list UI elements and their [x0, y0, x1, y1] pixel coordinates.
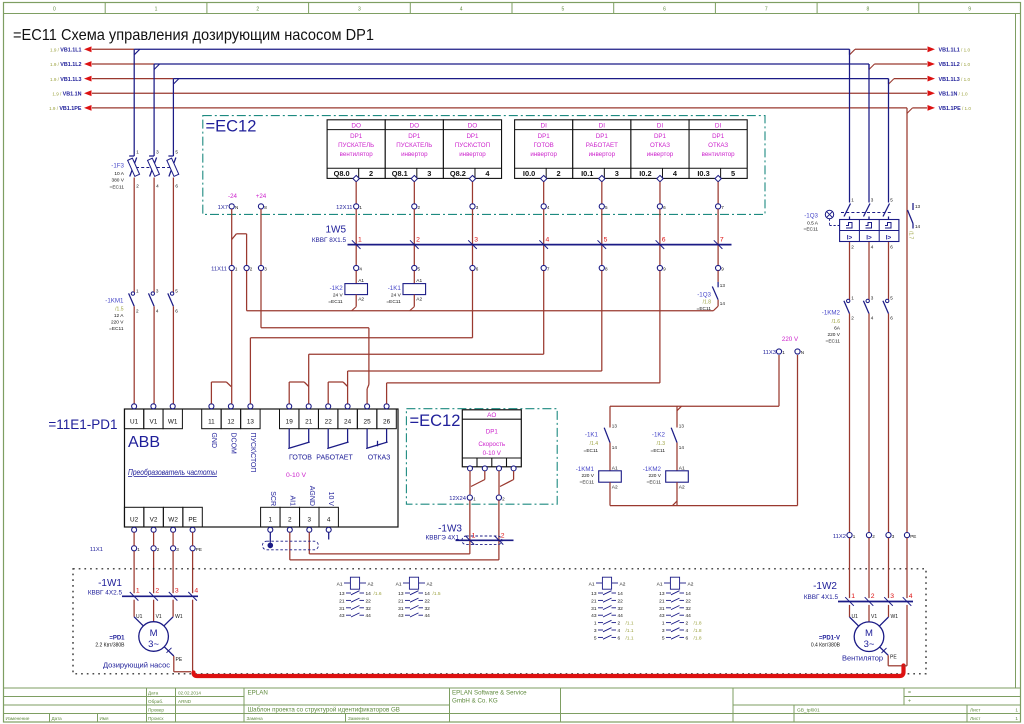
svg-text:A1: A1	[657, 581, 663, 587]
field equipment dotted box	[73, 569, 926, 674]
terminal 11X11:1	[229, 265, 234, 270]
terminal 12X11:4	[541, 204, 546, 209]
rail VB1.1PE target arrow right	[928, 105, 936, 111]
coil circuit top rail 220V	[610, 405, 779, 407]
svg-text:43: 43	[591, 613, 597, 619]
svg-text:3: 3	[594, 628, 597, 634]
terminal 11X1:2	[151, 546, 156, 551]
svg-text:2: 2	[872, 534, 875, 539]
svg-text:V1: V1	[871, 614, 877, 620]
top ruler band	[4, 13, 1021, 15]
svg-text:6: 6	[175, 308, 178, 313]
svg-text:DO: DO	[351, 122, 361, 129]
svg-text:12X11: 12X11	[336, 205, 352, 211]
terminal 12X24:2	[496, 495, 501, 500]
svg-text:GND: GND	[210, 433, 217, 449]
rail VB1.1N target arrow right	[928, 90, 936, 96]
svg-text:Q8.2: Q8.2	[450, 169, 466, 178]
svg-text:2: 2	[136, 184, 139, 189]
svg-text:2: 2	[136, 308, 139, 313]
wire 11X1:PE to cable	[192, 551, 194, 593]
svg-text:AGND: AGND	[308, 486, 315, 506]
1W5 wire 2 mark	[410, 240, 419, 249]
-1KM2 contact pole 3	[886, 299, 889, 302]
svg-text:13: 13	[339, 591, 345, 597]
wire VFD to 11X1:PE	[192, 532, 194, 545]
svg-text:ПУСКАТЕЛЬ: ПУСКАТЕЛЬ	[338, 142, 374, 149]
svg-text:22: 22	[366, 598, 372, 604]
PLC box I0.1	[573, 120, 631, 179]
svg-text:14: 14	[915, 224, 921, 229]
svg-text:ГОТОВ: ГОТОВ	[289, 455, 312, 462]
right inner frame line	[1015, 14, 1017, 689]
svg-text:2: 2	[871, 593, 875, 600]
svg-text:/1.4: /1.4	[590, 441, 599, 447]
rail VB1.1PE source arrow left	[84, 105, 92, 111]
wire 11X2:3 to cable	[888, 538, 890, 598]
svg-text:W1: W1	[175, 614, 183, 620]
svg-text:21: 21	[591, 598, 597, 604]
terminal 11X2:2	[866, 533, 871, 538]
svg-text:6: 6	[175, 184, 178, 189]
PLC box AO DP1 Скорость	[462, 410, 521, 467]
svg-text:A2: A2	[679, 484, 685, 490]
svg-text:РАБОТАЕТ: РАБОТАЕТ	[316, 455, 353, 462]
svg-text:1: 1	[662, 621, 665, 627]
PLC box I0.2	[631, 120, 689, 179]
svg-text:5: 5	[605, 205, 608, 210]
svg-text:PE: PE	[176, 657, 183, 663]
contact mirror cross-reference	[403, 582, 409, 584]
svg-text:DI: DI	[657, 122, 664, 129]
svg-text:/1.7: /1.7	[908, 231, 914, 240]
svg-text:-1K1: -1K1	[585, 432, 599, 439]
jumper VFD pins 11-12 GND-DCOM	[210, 382, 212, 404]
svg-text:5: 5	[561, 7, 564, 13]
svg-text:2: 2	[288, 517, 292, 524]
svg-text:=: =	[908, 690, 911, 696]
svg-text:КВВГ 8Х1.5: КВВГ 8Х1.5	[312, 237, 347, 244]
svg-text:0-10 V: 0-10 V	[483, 450, 502, 457]
svg-text:7: 7	[547, 267, 550, 272]
svg-text:3: 3	[156, 288, 159, 293]
wire 11X2:2 to cable	[868, 538, 870, 598]
svg-text:2: 2	[250, 267, 253, 272]
svg-text:12: 12	[227, 418, 235, 425]
svg-text:I0.1: I0.1	[581, 169, 593, 178]
svg-text:PE: PE	[196, 547, 202, 552]
-1Q3 aux contact 13-14 right	[912, 203, 914, 210]
svg-text:3: 3	[890, 593, 894, 600]
wire -1KM1 pole 2 to VFD	[153, 306, 155, 403]
VFD bottom pin U2	[124, 507, 143, 527]
terminal 12X11:6	[657, 204, 662, 209]
svg-text:=EC11: =EC11	[386, 299, 401, 305]
svg-text:A2: A2	[358, 296, 364, 302]
svg-text:ARND: ARND	[178, 699, 192, 704]
svg-text:=EC11: =EC11	[697, 306, 712, 312]
svg-text:DP1: DP1	[350, 133, 363, 140]
svg-text:-1KM2: -1KM2	[822, 310, 841, 317]
svg-text:вентилятор: вентилятор	[340, 151, 374, 158]
VFD relay contact ГОТОВ 19-21	[288, 429, 290, 448]
wire 11X11:8 to VFD pin 24	[601, 271, 603, 371]
svg-text:21: 21	[398, 598, 404, 604]
svg-text:-1Q3: -1Q3	[804, 213, 818, 220]
svg-text:22: 22	[425, 598, 431, 604]
svg-text:5: 5	[594, 635, 597, 641]
L1 drop left	[133, 49, 135, 156]
svg-text:U1: U1	[852, 614, 859, 620]
terminal 11X1:PE	[190, 546, 195, 551]
VFD bottom pin 4	[319, 507, 338, 527]
wire 11X11:6 to VFD pin 13 ПУСК\СТОП	[472, 271, 474, 338]
svg-text:=PD1-V: =PD1-V	[819, 636, 840, 642]
svg-text:11X2: 11X2	[833, 534, 846, 540]
svg-text:ГОТОВ: ГОТОВ	[534, 142, 554, 149]
svg-text:44: 44	[425, 613, 431, 619]
svg-text:W1: W1	[168, 418, 178, 425]
svg-text:Дата: Дата	[52, 716, 63, 721]
terminal 11X11:5	[412, 265, 417, 270]
svg-text:=EC11: =EC11	[328, 299, 343, 305]
-1KM1 contact pole 3	[170, 292, 173, 295]
svg-text:-1KM2: -1KM2	[643, 466, 662, 473]
svg-text:/1.6: /1.6	[374, 591, 382, 597]
svg-text:V1: V1	[156, 614, 162, 620]
motor =PD1 leads	[133, 600, 135, 617]
VFD top pin 22	[319, 409, 338, 429]
svg-text:EPLAN: EPLAN	[248, 690, 268, 697]
terminal 11X2:3	[886, 533, 891, 538]
svg-text:6: 6	[662, 237, 666, 244]
svg-text:24: 24	[344, 418, 352, 425]
wire AO pin2 jog to 12X24:1	[484, 471, 486, 480]
svg-text:-1W3: -1W3	[438, 524, 462, 535]
svg-text:2: 2	[618, 621, 621, 627]
wire 11X11:1 to VFD pin 12 DCOM	[231, 271, 233, 404]
svg-text:2: 2	[369, 169, 373, 178]
svg-text:инвертор: инвертор	[589, 151, 616, 158]
rail VB1.1L3 wire	[92, 78, 173, 80]
terminal 12X24:1	[467, 495, 472, 500]
svg-text:26: 26	[383, 418, 391, 425]
svg-text:/1.5: /1.5	[115, 307, 124, 313]
svg-text:4: 4	[909, 593, 913, 600]
svg-text:11X1: 11X1	[90, 547, 103, 553]
wire -24 common A2 line	[246, 271, 248, 311]
svg-text:4: 4	[546, 237, 550, 244]
-1W1 wire 4 mark	[188, 592, 197, 601]
svg-text:3: 3	[615, 169, 619, 178]
jumper VFD pins 19-21	[288, 382, 290, 404]
svg-text:31: 31	[398, 606, 404, 612]
svg-text:1: 1	[358, 237, 362, 244]
svg-text:4: 4	[194, 588, 198, 595]
frequency converter U1 =11E1-PD1 outer box	[125, 409, 399, 527]
svg-text:W2: W2	[168, 517, 178, 524]
svg-text:13: 13	[659, 591, 665, 597]
svg-text:3: 3	[476, 205, 479, 210]
wire -1Q3 pole 1 to -1KM2	[849, 242, 851, 300]
svg-text:ОТКАЗ: ОТКАЗ	[708, 142, 728, 149]
VFD relay contact РАБОТАЕТ 22-24	[327, 429, 329, 448]
wire -1Q3 pole 3 to -1KM2	[888, 242, 890, 300]
svg-text:Провер: Провер	[148, 708, 164, 713]
svg-text:Лист: Лист	[970, 708, 981, 714]
wire -1KM2 pole 3 to 11X2	[888, 314, 890, 533]
svg-text:7: 7	[765, 7, 768, 13]
svg-text:4: 4	[547, 205, 550, 210]
-1KM1 contact pole 2	[151, 292, 154, 295]
svg-text:0.5 A: 0.5 A	[807, 221, 819, 227]
wire 11X3:1 to top rail	[778, 355, 780, 406]
wire -1KM1 pole 1 to VFD	[133, 306, 135, 403]
svg-text:3~: 3~	[864, 639, 875, 650]
VFD top pin V1	[144, 409, 163, 429]
svg-text:-1Q3: -1Q3	[697, 291, 711, 298]
svg-text:0: 0	[53, 7, 56, 13]
svg-text:11X3: 11X3	[763, 350, 776, 356]
svg-text:3: 3	[264, 267, 267, 272]
terminal 12X11:5	[599, 204, 604, 209]
svg-text:Преобразователь частоты: Преобразователь частоты	[128, 468, 217, 477]
-1KM2 contact pole 2	[866, 299, 869, 302]
svg-text:Заменено: Заменено	[348, 716, 370, 721]
svg-text:2: 2	[851, 316, 854, 321]
svg-text:2.2 Квт/380В: 2.2 Квт/380В	[95, 643, 125, 649]
VFD top pin 13	[241, 409, 260, 429]
svg-text:1: 1	[851, 198, 854, 203]
svg-text:2: 2	[157, 547, 160, 552]
svg-text:13: 13	[679, 424, 685, 429]
svg-text:=EC11: =EC11	[826, 338, 841, 344]
svg-text:=EC11: =EC11	[110, 185, 125, 191]
wire 12X11:5 down	[601, 209, 603, 265]
wire VFD to 11X1:2	[153, 532, 155, 545]
svg-text:GB_tpl001: GB_tpl001	[797, 708, 820, 714]
svg-text:Изменение: Изменение	[6, 716, 30, 721]
terminal 11X1:1	[132, 546, 137, 551]
VFD top pin 12	[221, 409, 240, 429]
svg-text:=EC11 Схема управления дозирую: =EC11 Схема управления дозирующим насосо…	[13, 27, 374, 44]
wire -1Q3 pole 2 to -1KM2	[868, 242, 870, 300]
motor =PD1 PE lead	[164, 647, 174, 656]
svg-text:7: 7	[720, 237, 724, 244]
wire -1K2 to coil -1KM2	[676, 443, 678, 471]
svg-text:PE: PE	[910, 534, 916, 539]
svg-text:-1W1: -1W1	[98, 578, 122, 589]
terminal 11X11:9	[716, 265, 721, 270]
rail VB1.1N wire	[92, 92, 927, 94]
svg-text:V2: V2	[150, 517, 158, 524]
svg-text:14: 14	[720, 301, 726, 306]
terminal 11X1:3	[171, 546, 176, 551]
svg-text:1: 1	[235, 267, 238, 272]
svg-text:9: 9	[721, 267, 724, 272]
svg-text:2: 2	[557, 169, 561, 178]
svg-text:24 V: 24 V	[333, 293, 344, 299]
wire -1F3 pole 1 to -1KM1	[133, 178, 135, 293]
svg-text:1: 1	[853, 534, 856, 539]
svg-text:5: 5	[890, 198, 893, 203]
VFD bottom pin 1	[261, 507, 280, 527]
-1F3 pole 1	[129, 155, 134, 157]
svg-text:24 V: 24 V	[391, 293, 402, 299]
svg-text:1: 1	[137, 547, 140, 552]
svg-text:14: 14	[425, 591, 431, 597]
svg-text:13: 13	[398, 591, 404, 597]
svg-text:U2: U2	[130, 517, 139, 524]
svg-text:I0.0: I0.0	[523, 169, 535, 178]
-1Q3 pole 2	[864, 204, 871, 217]
svg-text:9: 9	[968, 7, 971, 13]
-1W1 wire 1 mark	[130, 592, 139, 601]
svg-text:PE: PE	[188, 517, 197, 524]
relay contact -1K2 13-14	[676, 406, 678, 427]
wire 11X2:1 to cable	[849, 538, 851, 598]
svg-text:4: 4	[460, 7, 463, 13]
svg-text:380 V: 380 V	[111, 178, 124, 184]
-1W2 wire 1 mark	[845, 597, 854, 606]
terminal 11X11:3	[258, 265, 263, 270]
svg-text:44: 44	[686, 613, 692, 619]
wire 1X7:N to 11X11:1	[231, 209, 233, 265]
svg-text:ABB: ABB	[128, 434, 160, 451]
svg-text:21: 21	[305, 418, 313, 425]
svg-text:-1K2: -1K2	[330, 285, 344, 292]
-1W1 wire 2 mark	[149, 592, 158, 601]
svg-text:A2: A2	[620, 581, 626, 587]
svg-text:5: 5	[662, 635, 665, 641]
rail VB1.1L2 target arrow right	[928, 61, 936, 67]
-1Q3 thermal-magnetic box	[840, 220, 899, 242]
svg-text:3: 3	[308, 517, 312, 524]
motor breaker -1Q3 main poles	[841, 212, 892, 214]
svg-text:0.4 Квт/380В: 0.4 Квт/380В	[811, 643, 841, 649]
svg-text:5: 5	[604, 237, 608, 244]
VFD top pin 24	[338, 409, 357, 429]
svg-text:6A: 6A	[834, 326, 841, 332]
-1W2 wire 2 mark	[865, 597, 874, 606]
jumper VFD pins 22-24	[327, 382, 329, 404]
svg-text:SCR: SCR	[269, 491, 276, 506]
AO pin connection	[468, 466, 473, 471]
svg-text:DP1: DP1	[466, 133, 479, 140]
svg-text:=EC11: =EC11	[584, 448, 599, 454]
svg-text:V1: V1	[149, 418, 157, 425]
svg-text:DO: DO	[468, 122, 478, 129]
svg-text:13: 13	[720, 283, 726, 288]
wire VFD to 11X1:3	[172, 532, 174, 545]
svg-text:Дата: Дата	[148, 691, 159, 696]
svg-text:1: 1	[851, 593, 855, 600]
VFD top pin 21	[299, 409, 318, 429]
svg-text:Вентилятор: Вентилятор	[842, 654, 883, 663]
svg-text:32: 32	[686, 606, 692, 612]
contact mirror cross-reference	[664, 582, 670, 584]
svg-text:31: 31	[591, 606, 597, 612]
svg-text:220 V: 220 V	[648, 473, 661, 479]
relay coil -1K2	[355, 271, 357, 284]
svg-text:/1.8: /1.8	[694, 621, 702, 627]
svg-text:220 V: 220 V	[782, 336, 799, 343]
svg-text:I>: I>	[847, 235, 853, 242]
wire 11X11:9 to VFD pin 26	[659, 271, 661, 383]
svg-text:13: 13	[247, 418, 255, 425]
1W5 wire 7 mark	[714, 240, 723, 249]
wire 11X1:3 to cable	[172, 551, 174, 593]
wire AO pin3 to 12X24:2	[498, 471, 500, 495]
terminal 1X7:N	[229, 204, 234, 209]
wire +24 to VFD pin 25	[260, 271, 262, 328]
svg-text:14: 14	[686, 591, 692, 597]
svg-text:13: 13	[915, 204, 921, 209]
svg-text:44: 44	[366, 613, 372, 619]
svg-text:N: N	[801, 350, 804, 355]
svg-text:14: 14	[612, 445, 618, 450]
VFD top pin 11	[202, 409, 221, 429]
svg-text:3: 3	[871, 296, 874, 301]
aux contact -1Q3 13-14 (fan feedback)	[717, 271, 719, 282]
svg-text:GmbH & Co. KG: GmbH & Co. KG	[452, 698, 498, 705]
L3 drop left	[172, 79, 174, 156]
svg-text:-1KM1: -1KM1	[105, 297, 124, 304]
svg-text:/1.5: /1.5	[433, 591, 441, 597]
svg-text:КВВГ 4Х1.5: КВВГ 4Х1.5	[804, 594, 839, 601]
wire Q8.0 to terminal	[355, 182, 357, 204]
svg-text:7: 7	[721, 205, 724, 210]
PLC box Q8.1	[385, 120, 443, 179]
title block grid	[4, 687, 245, 689]
VFD bottom pin 3	[300, 507, 319, 527]
rail VB1.1PE wire	[92, 107, 907, 109]
svg-text:6: 6	[663, 205, 666, 210]
-1F3 pole 3	[168, 155, 173, 157]
svg-text:РАБОТАЕТ: РАБОТАЕТ	[586, 142, 618, 149]
VFD top pin 26	[377, 409, 396, 429]
-1W3 wire 1 mark	[466, 536, 475, 545]
svg-text:02.02.2014: 02.02.2014	[178, 691, 201, 696]
svg-text:I>: I>	[886, 235, 892, 242]
svg-text:Шаблон проекта со структурой и: Шаблон проекта со структурой идентификат…	[248, 707, 400, 714]
wire 11X2:PE to cable	[906, 538, 908, 598]
svg-text:31: 31	[339, 606, 345, 612]
wire VFD to 11X1:1	[133, 532, 135, 545]
wire 12X24:2 down	[498, 500, 500, 560]
svg-text:1: 1	[136, 150, 139, 155]
svg-text:DP1: DP1	[538, 133, 551, 140]
wire 12X11:3 down	[472, 209, 474, 265]
svg-text:-1W2: -1W2	[813, 581, 837, 592]
svg-text:3: 3	[175, 588, 179, 595]
motor =PD1-V PE lead	[880, 647, 889, 655]
svg-text:ОТКАЗ: ОТКАЗ	[368, 455, 391, 462]
svg-text:+24: +24	[256, 193, 267, 200]
wire Q8.1 to terminal	[413, 182, 415, 204]
svg-text:N: N	[235, 205, 238, 210]
svg-text:19: 19	[286, 418, 294, 425]
svg-text:8: 8	[264, 205, 267, 210]
svg-text:10 A: 10 A	[114, 171, 124, 177]
PLC box I0.0	[515, 120, 573, 179]
svg-text:I>: I>	[866, 235, 872, 242]
svg-text:4: 4	[327, 517, 331, 524]
svg-text:11: 11	[208, 418, 215, 425]
VFD pin4 stub	[328, 532, 330, 539]
VFD bottom pin V2	[144, 507, 163, 527]
motor =PD1 дозирующий насос	[139, 622, 169, 652]
